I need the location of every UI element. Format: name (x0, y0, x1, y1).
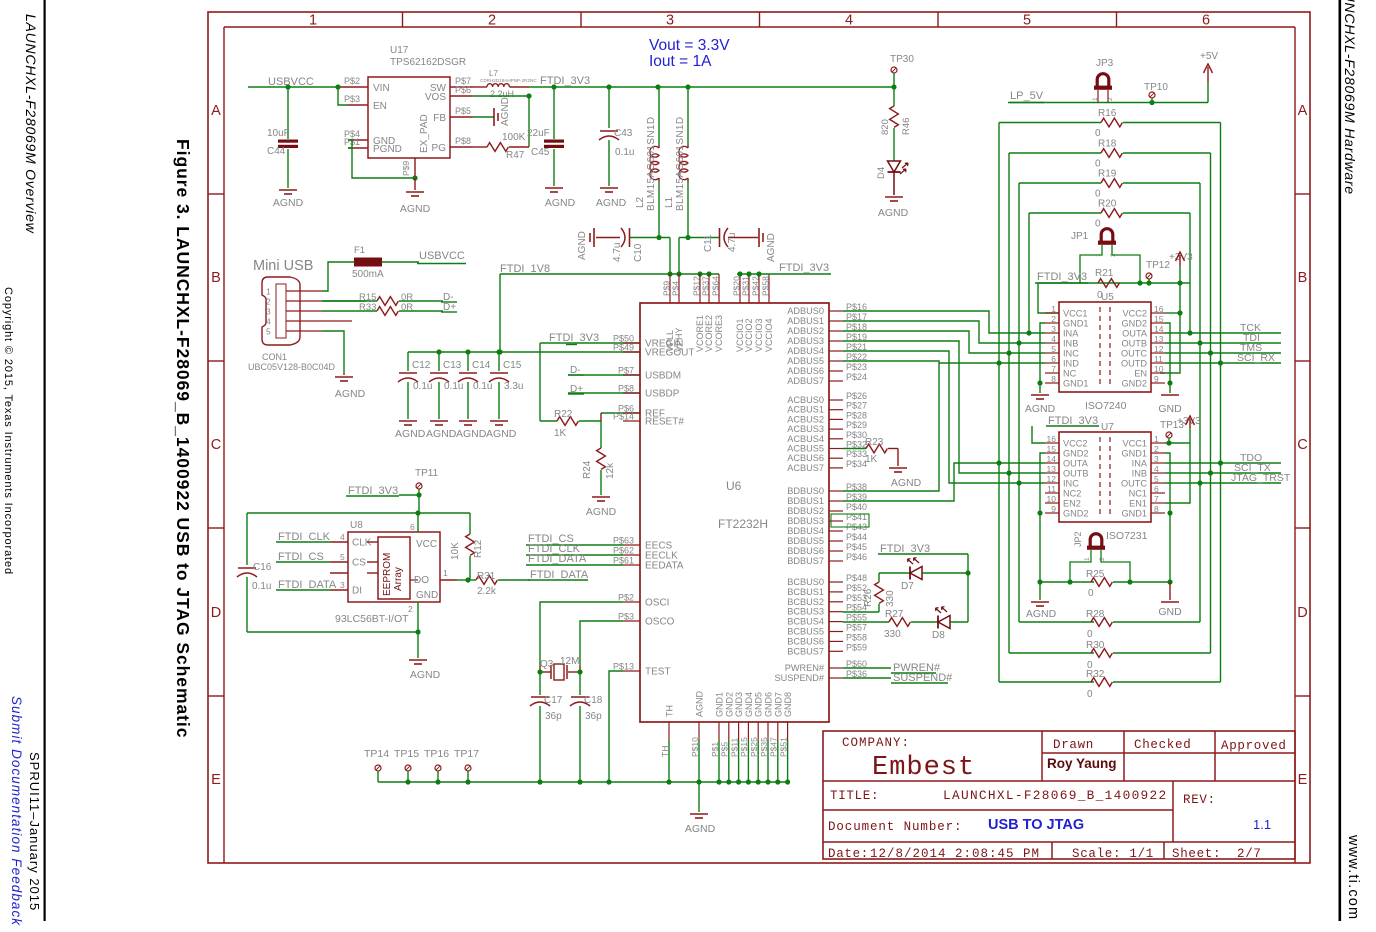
svg-text:R20: R20 (1098, 199, 1117, 210)
svg-text:P$44: P$44 (846, 532, 867, 542)
svg-text:FTDI_3V3: FTDI_3V3 (880, 543, 930, 555)
svg-text:PGND: PGND (373, 144, 402, 155)
svg-text:330: 330 (885, 590, 896, 607)
svg-text:INC: INC (1063, 349, 1079, 359)
svg-text:LAUNCHXL-F28069M Overview: LAUNCHXL-F28069M Overview (23, 14, 39, 234)
svg-text:P$47: P$47 (769, 737, 779, 757)
svg-text:C: C (1297, 437, 1307, 453)
svg-text:BDBUS0: BDBUS0 (787, 486, 824, 496)
svg-text:BDBUS6: BDBUS6 (787, 546, 824, 556)
svg-text:C15: C15 (503, 360, 522, 371)
svg-text:ADBUS2: ADBUS2 (787, 326, 824, 336)
svg-text:15: 15 (1154, 314, 1164, 324)
svg-text:8: 8 (1154, 504, 1159, 514)
svg-text:GND1: GND1 (715, 692, 725, 717)
svg-text:FTDI_3V3: FTDI_3V3 (549, 332, 599, 344)
svg-text:R12: R12 (473, 539, 484, 558)
svg-text:BCBUS6: BCBUS6 (787, 636, 824, 646)
svg-text:USBVCC: USBVCC (268, 76, 314, 88)
svg-text:COMPANY:: COMPANY: (842, 736, 910, 750)
svg-text:P$1: P$1 (710, 742, 720, 757)
svg-text:FTDI_1V8: FTDI_1V8 (500, 263, 550, 275)
svg-text:FTDI_DATA: FTDI_DATA (530, 569, 589, 581)
svg-text:VCC: VCC (416, 539, 437, 550)
svg-text:OUTD: OUTD (1121, 359, 1147, 369)
svg-text:AGND: AGND (695, 690, 705, 717)
svg-text:GND6: GND6 (764, 692, 774, 717)
svg-text:0.1u: 0.1u (444, 381, 463, 392)
svg-text:TEST: TEST (645, 667, 671, 678)
svg-text:P$24: P$24 (846, 372, 867, 382)
svg-text:TP17: TP17 (454, 748, 479, 760)
svg-text:SUSPEND#: SUSPEND# (893, 672, 953, 684)
svg-text:14: 14 (1154, 324, 1164, 334)
svg-text:www.ti.com: www.ti.com (1345, 834, 1361, 920)
svg-text:AGND: AGND (577, 231, 588, 260)
svg-text:ISO7240: ISO7240 (1085, 400, 1127, 412)
svg-text:BCBUS3: BCBUS3 (787, 607, 824, 617)
svg-text:P$27: P$27 (846, 401, 867, 411)
svg-text:0: 0 (1095, 128, 1101, 139)
svg-text:EX_PAD: EX_PAD (419, 114, 430, 153)
svg-text:TH: TH (660, 746, 670, 757)
svg-text:Figure 3. LAUNCHXL-F28069_B_14: Figure 3. LAUNCHXL-F28069_B_1400922 USB … (173, 139, 193, 738)
svg-text:E: E (211, 772, 221, 788)
svg-text:1: 1 (266, 287, 271, 297)
svg-text:22uF: 22uF (527, 128, 550, 139)
svg-text:12/8/2014 2:08:45 PM: 12/8/2014 2:08:45 PM (870, 847, 1040, 861)
svg-text:GND1: GND1 (1063, 379, 1089, 389)
svg-text:4: 4 (1051, 334, 1056, 344)
svg-text:FTDI_3V3: FTDI_3V3 (540, 75, 590, 87)
svg-text:P$40: P$40 (846, 502, 867, 512)
svg-text:Copyright © 2015, Texas Instru: Copyright © 2015, Texas Instruments Inco… (2, 287, 14, 575)
svg-text:JP2: JP2 (1073, 531, 1083, 547)
svg-text:P$5: P$5 (455, 106, 471, 116)
svg-text:SUSPEND#: SUSPEND# (774, 673, 824, 683)
svg-text:500mA: 500mA (352, 269, 384, 280)
svg-text:P$48: P$48 (846, 573, 867, 583)
svg-text:P$57: P$57 (846, 623, 867, 633)
svg-text:BDBUS7: BDBUS7 (787, 556, 824, 566)
svg-text:A: A (211, 103, 221, 119)
svg-text:8: 8 (1051, 374, 1056, 384)
svg-text:R21: R21 (1095, 268, 1114, 279)
svg-text:C44: C44 (267, 146, 286, 157)
svg-text:BDBUS5: BDBUS5 (787, 536, 824, 546)
svg-text:P$49: P$49 (613, 343, 634, 353)
svg-text:LAUNCHXL-F28069M Hardware: LAUNCHXL-F28069M Hardware (1342, 0, 1358, 195)
svg-text:3: 3 (340, 580, 345, 590)
svg-text:AGND: AGND (273, 197, 304, 209)
svg-text:Scale: 1/1: Scale: 1/1 (1072, 847, 1154, 861)
svg-text:EN2: EN2 (1063, 499, 1081, 509)
svg-text:AGND: AGND (685, 823, 716, 835)
svg-text:12k: 12k (605, 462, 616, 479)
svg-text:2: 2 (1154, 444, 1159, 454)
svg-text:Mini USB: Mini USB (253, 258, 313, 274)
svg-text:CLK: CLK (352, 538, 372, 549)
svg-text:R18: R18 (1098, 139, 1117, 150)
svg-text:5: 5 (1154, 474, 1159, 484)
svg-text:U5: U5 (1101, 292, 1114, 303)
svg-text:U6: U6 (726, 479, 742, 493)
svg-text:R31: R31 (477, 571, 496, 582)
svg-text:Vout = 3.3V: Vout = 3.3V (649, 37, 730, 54)
svg-text:INB: INB (1132, 469, 1147, 479)
svg-text:USBDM: USBDM (645, 371, 681, 382)
svg-text:4: 4 (845, 13, 853, 29)
svg-text:3.3u: 3.3u (504, 381, 523, 392)
svg-text:GND2: GND2 (1121, 379, 1147, 389)
svg-text:P$5: P$5 (720, 742, 730, 757)
svg-text:OUTA: OUTA (1063, 459, 1089, 469)
svg-text:Q3: Q3 (540, 659, 554, 670)
svg-text:TP14: TP14 (364, 748, 389, 760)
svg-text:ACBUS2: ACBUS2 (787, 414, 824, 424)
svg-text:Date:: Date: (828, 847, 869, 861)
svg-text:ACBUS0: ACBUS0 (787, 395, 824, 405)
svg-text:3: 3 (666, 13, 674, 29)
svg-text:R26: R26 (863, 588, 874, 607)
svg-text:R28: R28 (1086, 609, 1105, 620)
svg-text:AGND: AGND (891, 477, 922, 489)
svg-text:P$63: P$63 (613, 536, 634, 546)
svg-text:Sheet:: Sheet: (1172, 847, 1221, 861)
svg-text:R33: R33 (359, 302, 376, 313)
svg-text:9: 9 (1154, 374, 1159, 384)
svg-text:PG: PG (432, 143, 447, 154)
svg-text:VCC2: VCC2 (1063, 439, 1088, 449)
svg-text:INC: INC (1063, 479, 1079, 489)
svg-text:3: 3 (266, 307, 271, 317)
svg-text:P$6: P$6 (455, 85, 471, 95)
svg-text:OUTB: OUTB (1121, 339, 1147, 349)
svg-text:P$3: P$3 (344, 94, 360, 104)
svg-text:0.1u: 0.1u (413, 381, 432, 392)
svg-text:R19: R19 (1098, 169, 1117, 180)
svg-text:P$46: P$46 (846, 552, 867, 562)
svg-text:AGND: AGND (456, 428, 487, 440)
svg-text:P$51: P$51 (778, 737, 788, 757)
svg-text:2: 2 (408, 604, 413, 614)
svg-text:TP30: TP30 (890, 54, 914, 65)
svg-text:BCBUS2: BCBUS2 (787, 597, 824, 607)
svg-text:VCCIO3: VCCIO3 (754, 318, 764, 352)
svg-text:36p: 36p (585, 711, 602, 722)
svg-text:NC1: NC1 (1129, 489, 1147, 499)
svg-text:C12: C12 (412, 360, 431, 371)
svg-text:Drawn: Drawn (1053, 738, 1094, 752)
svg-text:OUTC: OUTC (1121, 479, 1147, 489)
svg-text:L7: L7 (489, 69, 498, 78)
svg-text:13: 13 (1047, 464, 1057, 474)
svg-text:P$7: P$7 (618, 366, 634, 376)
svg-text:2.2k: 2.2k (477, 586, 497, 597)
svg-text:P$11: P$11 (729, 738, 739, 757)
svg-text:0: 0 (1088, 588, 1094, 599)
svg-text:FTDI_3V3: FTDI_3V3 (779, 262, 829, 274)
svg-text:P$26: P$26 (846, 391, 867, 401)
svg-text:1: 1 (309, 13, 317, 29)
svg-text:93LC56BT-I/OT: 93LC56BT-I/OT (335, 613, 409, 625)
svg-text:NC2: NC2 (1063, 489, 1081, 499)
svg-text:GND5: GND5 (754, 692, 764, 717)
svg-text:ISO7231: ISO7231 (1106, 530, 1148, 542)
svg-text:1: 1 (1154, 434, 1159, 444)
svg-text:EEDATA: EEDATA (645, 561, 684, 572)
svg-text:INB: INB (1063, 339, 1078, 349)
svg-text:R23: R23 (865, 437, 884, 448)
svg-text:0: 0 (1087, 689, 1093, 700)
svg-text:P$55: P$55 (846, 613, 867, 623)
svg-text:AGND: AGND (1026, 608, 1057, 620)
svg-text:GND1: GND1 (1121, 449, 1147, 459)
svg-text:VIN: VIN (373, 83, 390, 94)
svg-text:ADBUS5: ADBUS5 (787, 356, 824, 366)
svg-text:TITLE:: TITLE: (830, 789, 879, 803)
svg-text:VOS: VOS (425, 92, 446, 103)
svg-text:ADBUS6: ADBUS6 (787, 366, 824, 376)
svg-text:GND2: GND2 (724, 692, 734, 717)
svg-text:P$35: P$35 (759, 737, 769, 757)
svg-text:AGND: AGND (500, 97, 511, 126)
svg-text:P$58: P$58 (761, 276, 771, 296)
svg-text:16: 16 (1154, 304, 1164, 314)
svg-text:SCI_RX: SCI_RX (1237, 352, 1275, 364)
svg-text:C16: C16 (253, 562, 272, 573)
svg-text:AGND: AGND (486, 428, 517, 440)
svg-text:B: B (1298, 270, 1308, 286)
svg-text:P$25: P$25 (749, 737, 759, 757)
svg-text:Approved: Approved (1221, 739, 1287, 753)
svg-text:BCBUS7: BCBUS7 (787, 646, 824, 656)
svg-text:AGND: AGND (395, 428, 426, 440)
svg-text:12: 12 (1047, 474, 1057, 484)
svg-text:Roy Yaung: Roy Yaung (1047, 756, 1117, 771)
svg-text:Checked: Checked (1134, 738, 1191, 752)
svg-text:P$13: P$13 (613, 662, 634, 672)
svg-text:RESET#: RESET# (645, 417, 684, 428)
svg-text:AGND: AGND (410, 669, 441, 681)
svg-text:AGND: AGND (586, 506, 617, 518)
svg-text:AGND: AGND (766, 233, 777, 262)
svg-text:EEPROM: EEPROM (382, 553, 393, 596)
svg-text:FTDI_3V3: FTDI_3V3 (348, 485, 398, 497)
svg-text:BCBUS5: BCBUS5 (787, 627, 824, 637)
svg-text:1.1: 1.1 (1253, 817, 1271, 832)
svg-text:0R: 0R (401, 302, 413, 313)
svg-text:BCBUS4: BCBUS4 (787, 617, 824, 627)
svg-text:820: 820 (880, 119, 891, 135)
svg-text:OUTA: OUTA (1122, 329, 1148, 339)
svg-text:INA: INA (1132, 459, 1148, 469)
svg-text:13: 13 (1154, 334, 1164, 344)
svg-text:15: 15 (1047, 444, 1057, 454)
svg-text:5: 5 (340, 552, 345, 562)
svg-text:PWREN#: PWREN# (785, 663, 825, 673)
svg-text:VCCIO4: VCCIO4 (764, 318, 774, 352)
svg-text:AGND: AGND (1025, 403, 1056, 415)
svg-text:L1: L1 (664, 196, 675, 208)
svg-text:16: 16 (1047, 434, 1057, 444)
svg-text:CDRH2D18AHPNP-2R2NC: CDRH2D18AHPNP-2R2NC (480, 78, 537, 83)
svg-text:A: A (1298, 103, 1308, 119)
svg-text:330: 330 (884, 629, 901, 640)
svg-text:1: 1 (1084, 557, 1091, 561)
svg-text:36p: 36p (545, 711, 562, 722)
svg-text:R16: R16 (1098, 108, 1117, 119)
svg-text:FTDI_CS: FTDI_CS (278, 551, 324, 563)
svg-text:4: 4 (1154, 464, 1159, 474)
svg-text:VCC1: VCC1 (1122, 439, 1147, 449)
svg-text:C: C (211, 437, 221, 453)
svg-text:Submit Documentation Feedback: Submit Documentation Feedback (9, 696, 24, 926)
svg-text:R22: R22 (554, 409, 573, 420)
svg-text:2: 2 (488, 13, 496, 29)
svg-text:Document Number:: Document Number: (828, 820, 962, 834)
svg-text:TP15: TP15 (394, 748, 419, 760)
svg-text:Array: Array (393, 567, 404, 591)
svg-text:P$42: P$42 (751, 276, 761, 296)
svg-text:P$15: P$15 (739, 737, 749, 757)
svg-text:P$28: P$28 (846, 410, 867, 420)
svg-text:ADBUS3: ADBUS3 (787, 336, 824, 346)
svg-text:U8: U8 (350, 520, 363, 531)
svg-text:5: 5 (1023, 13, 1031, 29)
svg-text:FTDI_3V3: FTDI_3V3 (1048, 415, 1098, 427)
svg-text:P$62: P$62 (613, 546, 634, 556)
svg-text:R30: R30 (1086, 640, 1105, 651)
svg-text:D7: D7 (901, 581, 914, 592)
svg-text:P$64: P$64 (711, 276, 721, 296)
svg-text:P$37: P$37 (701, 276, 711, 296)
svg-text:C45: C45 (531, 147, 550, 158)
svg-text:GND3: GND3 (734, 692, 744, 717)
svg-text:D4: D4 (876, 167, 887, 179)
svg-text:2: 2 (266, 297, 271, 307)
svg-text:EN1: EN1 (1129, 499, 1147, 509)
svg-text:P$3: P$3 (618, 612, 634, 622)
svg-text:INA: INA (1063, 329, 1079, 339)
svg-text:4.7u: 4.7u (612, 243, 623, 262)
svg-text:4.7u: 4.7u (727, 233, 738, 252)
svg-text:REV:: REV: (1183, 793, 1216, 807)
svg-text:R27: R27 (885, 609, 904, 620)
svg-text:Embest: Embest (872, 753, 975, 783)
svg-text:IND: IND (1063, 359, 1079, 369)
svg-text:C14: C14 (472, 360, 491, 371)
svg-text:2: 2 (1051, 314, 1056, 324)
svg-text:GND: GND (1158, 606, 1182, 618)
svg-text:GND2: GND2 (1063, 449, 1089, 459)
svg-text:AGND: AGND (335, 388, 366, 400)
svg-text:C17: C17 (544, 695, 563, 706)
svg-text:TP10: TP10 (1144, 82, 1168, 93)
svg-text:EN: EN (1134, 369, 1147, 379)
svg-text:6: 6 (1202, 13, 1210, 29)
svg-text:JP1: JP1 (1071, 231, 1089, 242)
svg-text:BCBUS1: BCBUS1 (787, 587, 824, 597)
svg-text:10: 10 (1047, 494, 1057, 504)
svg-text:3: 3 (1154, 454, 1159, 464)
svg-text:2/7: 2/7 (1237, 847, 1262, 861)
svg-text:TPS62162DSGR: TPS62162DSGR (390, 57, 466, 68)
svg-text:D8: D8 (932, 630, 945, 641)
svg-text:6: 6 (410, 522, 415, 532)
svg-text:4: 4 (340, 532, 345, 542)
svg-text:EN: EN (373, 101, 387, 112)
svg-text:P$45: P$45 (846, 542, 867, 552)
svg-text:ACBUS4: ACBUS4 (787, 434, 824, 444)
svg-text:TP12: TP12 (1146, 260, 1170, 271)
svg-text:ACBUS1: ACBUS1 (787, 405, 824, 415)
svg-text:L2: L2 (635, 196, 646, 208)
svg-text:P$9: P$9 (401, 161, 411, 176)
svg-text:GND1: GND1 (1063, 319, 1089, 329)
svg-text:GND8: GND8 (783, 692, 793, 717)
svg-text:12: 12 (1154, 344, 1164, 354)
svg-text:1: 1 (1051, 304, 1056, 314)
svg-text:0: 0 (1095, 219, 1101, 230)
svg-text:GND4: GND4 (744, 692, 754, 717)
svg-text:OUTB: OUTB (1063, 469, 1089, 479)
svg-text:FTDI_CLK: FTDI_CLK (278, 531, 331, 543)
svg-text:BLM15AG601SN1D: BLM15AG601SN1D (675, 117, 686, 211)
svg-text:JP3: JP3 (1096, 58, 1114, 69)
svg-text:FB: FB (433, 113, 446, 124)
svg-text:AGND: AGND (400, 203, 431, 215)
svg-text:D: D (211, 605, 221, 621)
svg-text:0.1u: 0.1u (615, 147, 634, 158)
svg-text:FT2232H: FT2232H (718, 517, 768, 531)
svg-text:OUTC: OUTC (1121, 349, 1147, 359)
svg-text:BDBUS2: BDBUS2 (787, 506, 824, 516)
svg-text:GND: GND (1158, 403, 1182, 415)
svg-text:Iout = 1A: Iout = 1A (649, 53, 712, 70)
svg-text:6: 6 (1154, 484, 1159, 494)
svg-text:P$23: P$23 (846, 362, 867, 372)
svg-text:TP16: TP16 (424, 748, 449, 760)
svg-text:C43: C43 (614, 128, 633, 139)
svg-text:SPRUI11–January 2015: SPRUI11–January 2015 (27, 752, 42, 911)
svg-text:DI: DI (352, 586, 362, 597)
svg-text:B: B (211, 270, 221, 286)
svg-text:P$34: P$34 (846, 459, 867, 469)
svg-text:P$58: P$58 (846, 632, 867, 642)
svg-text:CS: CS (352, 558, 366, 569)
svg-text:P$30: P$30 (846, 430, 867, 440)
svg-text:DO: DO (414, 575, 429, 586)
svg-text:BLM15AG601SN1D: BLM15AG601SN1D (646, 117, 657, 211)
svg-text:7: 7 (1154, 494, 1159, 504)
svg-text:P$33: P$33 (846, 449, 867, 459)
svg-text:ADBUS7: ADBUS7 (787, 376, 824, 386)
svg-text:NC: NC (1063, 369, 1077, 379)
svg-text:GND: GND (416, 590, 438, 601)
svg-text:5: 5 (1051, 344, 1056, 354)
svg-text:TH: TH (665, 705, 675, 717)
svg-text:0: 0 (1087, 629, 1093, 640)
svg-text:ACBUS5: ACBUS5 (787, 444, 824, 454)
svg-text:+5V: +5V (1200, 51, 1218, 62)
svg-text:BDBUS1: BDBUS1 (787, 496, 824, 506)
svg-text:R25: R25 (1086, 569, 1105, 580)
svg-text:4: 4 (266, 317, 271, 327)
svg-text:C11: C11 (703, 234, 714, 252)
svg-text:P$14: P$14 (613, 412, 634, 422)
svg-text:6: 6 (1051, 354, 1056, 364)
